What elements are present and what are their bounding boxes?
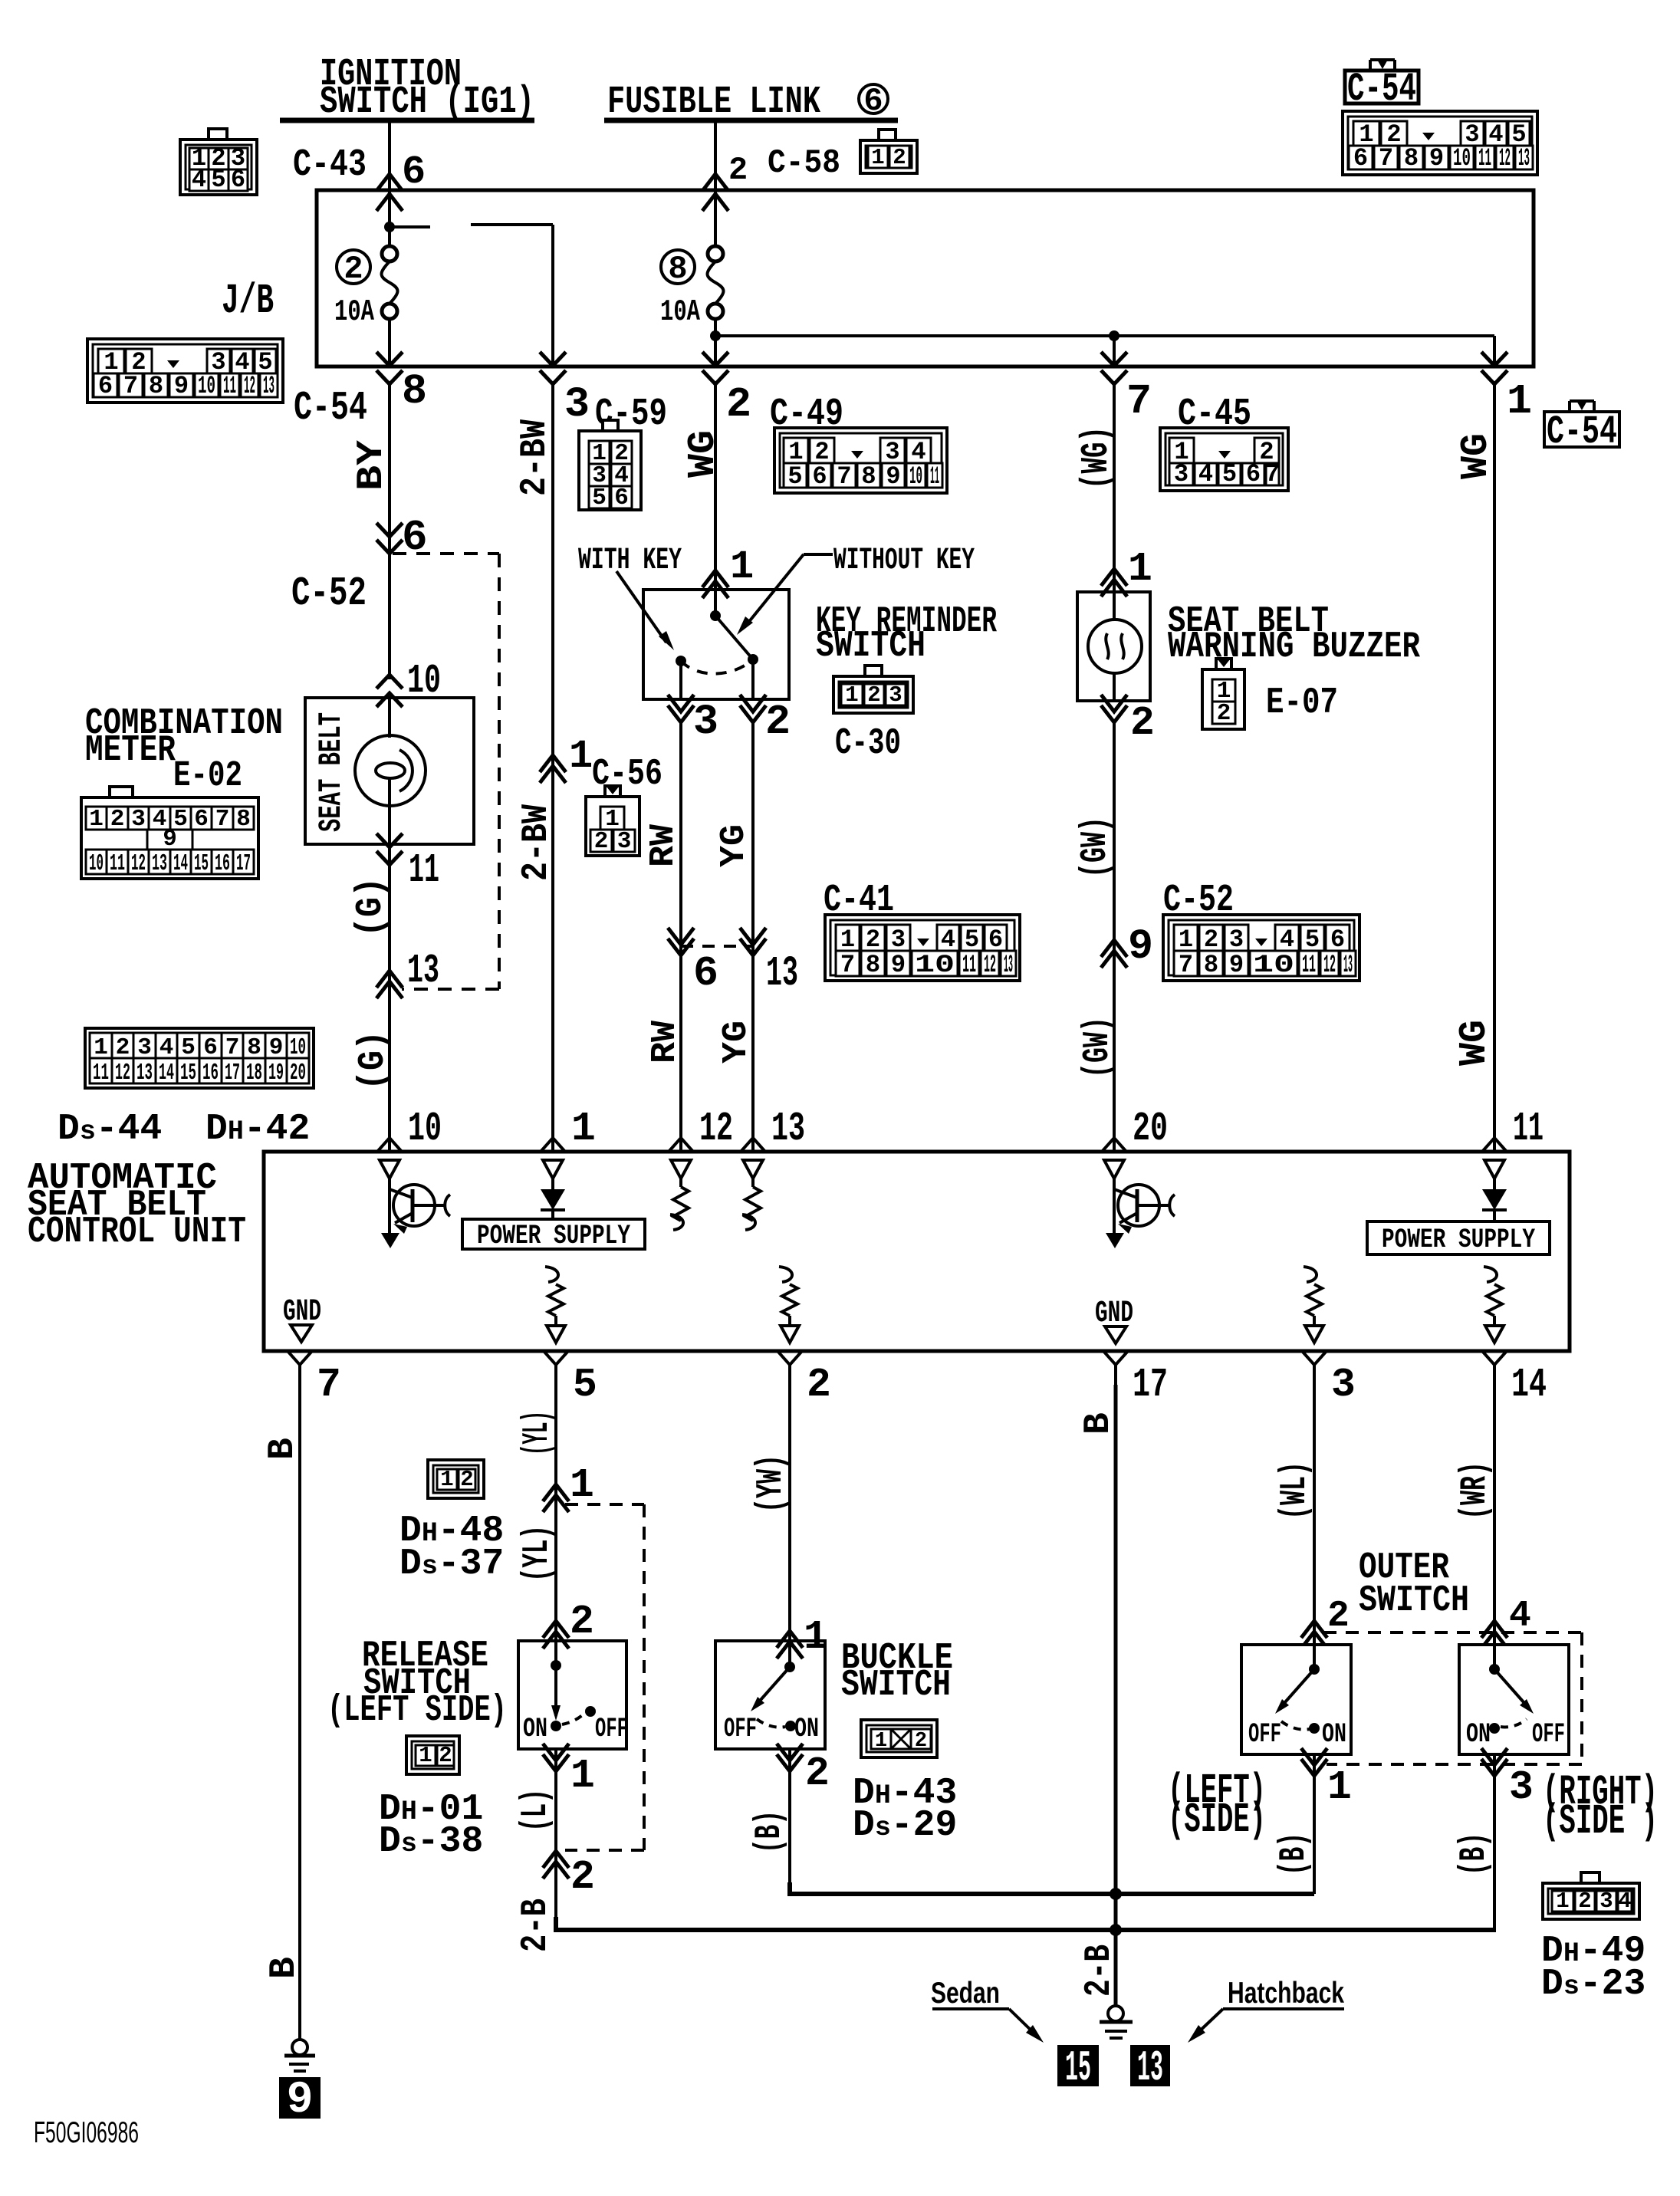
connector C-56 icon [586, 797, 639, 856]
connector arrows C-58 pin 2 [702, 174, 728, 191]
svg-text:(GW): (GW) [1077, 1017, 1119, 1078]
connector C-54 boxed label top right [1345, 58, 1419, 112]
svg-text:2: 2 [1217, 700, 1231, 727]
dashed connector link RW-YG [681, 945, 753, 948]
svg-text:WARNING BUZZER: WARNING BUZZER [1168, 626, 1420, 668]
junction dot below fuse 8 [710, 330, 721, 341]
svg-text:13: 13 [1137, 2043, 1163, 2092]
svg-text:FUSIBLE LINK: FUSIBLE LINK [607, 81, 820, 124]
svg-text:17: 17 [225, 1060, 240, 1086]
left outer switch box [1241, 1645, 1351, 1754]
svg-text:4: 4 [1509, 1596, 1531, 1637]
connector C-56 pin 1 arrows [540, 755, 566, 772]
control unit bottom pin 17 fork [1103, 1351, 1128, 1365]
svg-text:11: 11 [962, 951, 976, 979]
connector E-07 icon [1202, 669, 1244, 729]
svg-text:2: 2 [893, 145, 906, 170]
svg-text:Ds-23: Ds-23 [1541, 1964, 1645, 2005]
svg-text:7: 7 [123, 372, 138, 400]
svg-text:19: 19 [268, 1060, 284, 1086]
pullup resistor R1 [670, 1179, 689, 1230]
svg-text:(YW): (YW) [751, 1455, 792, 1513]
right outer switch pin 4 arrows [1481, 1621, 1507, 1638]
left outer switch pin 2 arrows [1301, 1621, 1327, 1638]
svg-text:8: 8 [149, 372, 163, 400]
svg-text:METER: METER [85, 730, 176, 771]
body ground symbol [284, 2040, 315, 2071]
svg-text:WITH KEY: WITH KEY [578, 544, 682, 578]
svg-text:17: 17 [236, 850, 251, 877]
svg-text:1: 1 [1327, 1764, 1352, 1810]
label COMBINATION METER E-02 [85, 703, 283, 797]
svg-text:8: 8 [1204, 951, 1218, 979]
svg-text:(G): (G) [353, 1031, 394, 1090]
svg-text:10A: 10A [660, 295, 700, 329]
svg-text:E-07: E-07 [1266, 682, 1338, 724]
svg-text:C-49: C-49 [770, 393, 843, 436]
J/B pin 3 arrows (2-BW wire) [540, 352, 566, 366]
leader WITHOUT KEY [804, 553, 833, 556]
svg-text:1: 1 [840, 925, 855, 954]
connector pin 13 arrows (dashed box exit) [376, 971, 403, 988]
svg-text:15: 15 [1065, 2043, 1091, 2092]
svg-text:5: 5 [787, 462, 802, 491]
wire drop to J/B pin 1 [1493, 336, 1496, 367]
svg-text:2-B: 2-B [515, 1898, 557, 1952]
svg-text:6: 6 [98, 372, 113, 400]
svg-text:2: 2 [110, 806, 125, 833]
svg-text:1: 1 [569, 734, 593, 779]
junction dot bus B [1110, 1924, 1122, 1936]
svg-text:2: 2 [594, 828, 609, 855]
connector C-54 icon (13 pin, top right) [1343, 111, 1537, 175]
svg-text:11: 11 [1478, 144, 1491, 173]
svg-text:10: 10 [198, 372, 215, 400]
svg-text:15: 15 [180, 1060, 196, 1086]
fuse 2 (10A) [382, 246, 397, 261]
wire YG (key reminder pin 2 to control unit pin 13) [751, 722, 755, 1152]
connector Dh-49 icon (4 pin) [1543, 1883, 1639, 1919]
svg-text:9: 9 [287, 2076, 314, 2125]
svg-text:10A: 10A [334, 295, 374, 329]
svg-text:13: 13 [1004, 951, 1013, 979]
ground reference box 15 [1058, 2043, 1098, 2092]
wire B (pin 7 to body ground 9) [298, 1385, 301, 2040]
transistor Q2 [1106, 1179, 1175, 1248]
svg-text:2: 2 [726, 380, 751, 429]
svg-text:6: 6 [988, 925, 1003, 954]
svg-text:16: 16 [202, 1060, 219, 1086]
svg-text:1: 1 [871, 145, 884, 170]
svg-text:Sedan: Sedan [931, 1977, 1000, 2010]
ground reference box 9 [280, 2076, 320, 2125]
svg-text:(WL): (WL) [1274, 1461, 1316, 1520]
dashed connector box Dh-48 span [565, 1503, 644, 1506]
svg-text:8: 8 [861, 462, 876, 491]
left outer switch contacts [1275, 1645, 1320, 1734]
junction dot at x=1453 [1109, 330, 1119, 341]
svg-text:6: 6 [1353, 144, 1368, 173]
svg-text:2: 2 [1578, 1889, 1591, 1914]
buzzer pin 2 arrows [1101, 695, 1127, 712]
svg-text:12: 12 [1323, 951, 1336, 979]
svg-text:13: 13 [407, 948, 439, 994]
svg-text:9: 9 [1128, 922, 1153, 971]
svg-text:C-56: C-56 [592, 754, 662, 795]
svg-text:1: 1 [730, 544, 754, 590]
svg-text:BY: BY [351, 440, 393, 491]
svg-text:2: 2 [460, 1467, 473, 1492]
wire IG1 from header to J/B (pin 6 C-43) [388, 120, 391, 192]
wire 2-BW (J/B pin 3 to control unit pin 1) [551, 383, 554, 1152]
svg-text:13: 13 [136, 1060, 153, 1086]
control unit bottom pin 2 fork [778, 1351, 802, 1365]
svg-text:1: 1 [1507, 377, 1532, 426]
svg-text:13: 13 [771, 1106, 805, 1152]
svg-text:7: 7 [1379, 144, 1393, 173]
connector Dh-48 icon [428, 1460, 484, 1498]
svg-text:13: 13 [263, 372, 275, 400]
svg-text:1: 1 [845, 682, 858, 708]
svg-text:2: 2 [765, 698, 791, 746]
svg-text:SWITCH: SWITCH [816, 626, 925, 667]
svg-text:13: 13 [1343, 951, 1353, 979]
junction dot on IG1 wire [384, 222, 395, 232]
svg-text:4: 4 [1618, 1889, 1631, 1914]
right outer switch pin 3 arrows [1481, 1748, 1507, 1765]
svg-text:POWER SUPPLY: POWER SUPPLY [477, 1221, 630, 1251]
svg-text:(L): (L) [515, 1789, 557, 1832]
wire (B) below buckle switch [788, 1749, 791, 1894]
bus wire B lower (release to right outer switch) [556, 1917, 1496, 1930]
svg-text:POWER SUPPLY: POWER SUPPLY [1382, 1225, 1535, 1255]
svg-text:2-BW: 2-BW [516, 804, 557, 881]
svg-text:1: 1 [570, 1753, 595, 1799]
svg-text:OFF: OFF [595, 1714, 628, 1744]
svg-text:3: 3 [889, 682, 902, 708]
svg-text:1: 1 [1556, 1889, 1569, 1914]
svg-text:11: 11 [223, 372, 236, 400]
svg-text:7: 7 [1126, 377, 1152, 426]
key reminder pin 2 arrows [740, 695, 766, 712]
svg-text:6: 6 [194, 806, 209, 833]
circled 2 [337, 250, 370, 284]
svg-text:F50GI06986: F50GI06986 [34, 2116, 139, 2149]
svg-text:SEAT BELT: SEAT BELT [313, 712, 350, 832]
svg-text:ON: ON [794, 1714, 819, 1744]
J/B pin 8 arrows (BY wire) [376, 352, 403, 366]
fuse 8 (10A) [708, 246, 723, 261]
svg-text:4: 4 [941, 925, 955, 954]
svg-text:2: 2 [915, 1730, 927, 1753]
svg-text:7: 7 [837, 462, 851, 491]
signal triangle pin 20 [1104, 1160, 1124, 1179]
dashed connector box C-52 span [393, 552, 499, 555]
svg-text:10: 10 [1453, 144, 1471, 173]
wire IG1 inside J/B to fuse 2 [388, 192, 391, 246]
svg-text:DH-42: DH-42 [205, 1109, 310, 1150]
svg-text:9: 9 [891, 951, 906, 979]
chassis ground symbol [1100, 2006, 1133, 2038]
svg-text:13: 13 [152, 850, 167, 877]
wire BY (J/B pin 8 to combination meter) [388, 383, 391, 679]
svg-text:3: 3 [1174, 460, 1188, 488]
svg-text:C-45: C-45 [1178, 393, 1251, 436]
label AUTOMATIC SEAT BELT CONTROL UNIT [28, 1158, 246, 1253]
diode D2 power supply [1482, 1179, 1507, 1221]
svg-text:5: 5 [965, 925, 979, 954]
svg-text:(YL): (YL) [517, 1525, 558, 1582]
wire (WR) pin 14 to right outer switch [1493, 1385, 1496, 1645]
svg-text:4: 4 [1198, 460, 1213, 488]
bus wire ground A (buckle to left outer switch) [790, 1882, 1314, 1894]
label (LEFT) (SIDE) [1168, 1767, 1266, 1844]
connector C-58 icon [860, 140, 917, 173]
wire drop to J/B pin 7 [1113, 336, 1116, 367]
svg-text:2: 2 [344, 251, 363, 288]
connector C-52 pin 9 arrows [1101, 940, 1127, 957]
key reminder switch contacts [676, 590, 758, 699]
key reminder switch box [643, 590, 789, 699]
svg-text:C-52: C-52 [291, 570, 367, 616]
svg-text:10: 10 [1253, 951, 1294, 979]
svg-text:1: 1 [571, 1106, 596, 1152]
svg-text:SWITCH: SWITCH [1359, 1580, 1469, 1622]
wire (WG) (J/B pin 7 to buzzer) [1113, 383, 1116, 592]
svg-text:6: 6 [231, 166, 245, 194]
connector pin 2 arrows (Dh-48 box exit) [543, 1851, 569, 1868]
svg-text:20: 20 [290, 1060, 306, 1086]
svg-text:7: 7 [840, 951, 855, 979]
svg-text:14: 14 [1511, 1362, 1547, 1408]
svg-text:11: 11 [1513, 1106, 1544, 1152]
gnd triangle left [291, 1325, 312, 1342]
signal triangle pin 11 [1484, 1160, 1504, 1179]
wire (G) below meter [388, 844, 391, 1152]
wire fusible link to J/B (pin 2 C-58) [714, 120, 717, 192]
svg-text:10: 10 [408, 1106, 442, 1152]
leader WITH KEY [616, 571, 666, 643]
wire (GW) (buzzer to control unit pin 20) [1113, 722, 1116, 1152]
release switch pin 2 arrows [543, 1621, 569, 1638]
svg-text:ON: ON [1466, 1719, 1491, 1750]
connector Ds-44/Dh-42 icon (20 pin) [85, 1028, 314, 1088]
connector C-30 icon [833, 676, 913, 713]
connector arrows C-43 pin 6 [376, 174, 403, 191]
label RELEASE SWITCH (LEFT SIDE) [327, 1635, 507, 1731]
svg-text:8: 8 [402, 367, 427, 416]
combination meter pin 10 arrows [376, 675, 403, 689]
control unit top pin 1 fork [541, 1138, 565, 1152]
svg-text:11: 11 [930, 462, 939, 491]
right outer switch box [1459, 1645, 1569, 1754]
control unit top pin 10 fork [377, 1138, 402, 1152]
svg-text:WG: WG [1453, 1020, 1497, 1066]
svg-text:10: 10 [909, 462, 922, 491]
svg-text:6: 6 [693, 949, 718, 998]
node IGNITION SWITCH (IG1) header [280, 53, 534, 124]
svg-text:C-54: C-54 [1547, 409, 1617, 455]
svg-text:15: 15 [194, 850, 209, 877]
wire WG (J/B pin 2 to key reminder switch) [714, 383, 717, 590]
release switch contacts [551, 1641, 596, 1731]
svg-text:1: 1 [570, 1462, 594, 1508]
svg-text:11: 11 [93, 1060, 109, 1086]
svg-text:5: 5 [592, 485, 607, 511]
svg-text:16: 16 [215, 850, 230, 877]
svg-text:9: 9 [174, 372, 189, 400]
wire (L) below release switch [554, 1749, 557, 1930]
svg-text:2: 2 [807, 1362, 831, 1408]
svg-text:9: 9 [886, 462, 900, 491]
svg-text:17: 17 [1133, 1362, 1168, 1408]
svg-text:7: 7 [317, 1362, 341, 1408]
connector C-59 icon [579, 431, 641, 510]
svg-text:6: 6 [614, 485, 629, 511]
connector C-54 boxed label right edge [1544, 399, 1619, 455]
output resistor at x=1949 [1484, 1267, 1504, 1343]
svg-text:3: 3 [1331, 1362, 1356, 1408]
label SEAT BELT WARNING BUZZER [1168, 601, 1420, 668]
dashed connector box outer switches [1323, 1632, 1582, 1764]
svg-text:OFF: OFF [1532, 1719, 1565, 1750]
wire (B) below right outer switch [1493, 1754, 1496, 1930]
wire (WL) pin 3 to left outer switch [1313, 1385, 1316, 1645]
svg-text:2-B: 2-B [1079, 1945, 1120, 1997]
svg-text:3: 3 [1599, 1889, 1613, 1914]
right outer switch contacts [1489, 1645, 1534, 1734]
svg-text:SWITCH: SWITCH [841, 1665, 951, 1706]
svg-text:11: 11 [110, 850, 125, 877]
label (RIGHT) (SIDE) [1543, 1768, 1658, 1846]
connector C-54 icon (13 pin, J/B left) [87, 339, 283, 403]
J/B pin 7 arrows ((WG) wire) [1101, 352, 1127, 366]
release switch box (left side) [518, 1641, 626, 1749]
signal triangle pin 1 [543, 1160, 563, 1179]
output resistor at x=1030 [779, 1267, 799, 1343]
svg-text:E-02: E-02 [173, 756, 242, 797]
J/B pin 1 arrows (WG wire right) [1481, 352, 1507, 366]
svg-text:WITHOUT KEY: WITHOUT KEY [833, 544, 975, 578]
svg-text:Ds-38: Ds-38 [379, 1821, 483, 1862]
buckle switch box [715, 1641, 825, 1749]
svg-text:1: 1 [875, 1730, 887, 1753]
connector C-49 icon [774, 428, 947, 493]
svg-text:5: 5 [1305, 925, 1320, 954]
svg-text:C-54: C-54 [1347, 67, 1416, 112]
svg-text:7: 7 [215, 806, 230, 833]
connector pin 6 arrows on RW [668, 928, 694, 945]
transistor Q1 [381, 1179, 450, 1248]
control unit top pin 13 fork [741, 1138, 765, 1152]
connector Dh-48 pin 1 arrows [543, 1484, 569, 1501]
svg-text:(B): (B) [749, 1810, 791, 1853]
Sedan leader line [932, 2009, 1044, 2043]
connector C-43 icon [180, 140, 257, 195]
svg-text:6: 6 [402, 150, 426, 195]
wire branch from IG1 junction to 2-BW drop [390, 225, 430, 228]
svg-text:11: 11 [1302, 951, 1316, 979]
buckle switch pin 1 arrows [777, 1631, 803, 1648]
svg-text:1: 1 [419, 1743, 432, 1768]
svg-text:7: 7 [1179, 951, 1193, 979]
svg-text:WG: WG [682, 430, 725, 478]
svg-text:8: 8 [668, 251, 687, 288]
control unit bottom pin 14 fork [1482, 1351, 1507, 1365]
svg-text:YG: YG [715, 824, 754, 867]
svg-text:(SIDE): (SIDE) [1168, 1796, 1266, 1844]
svg-text:7: 7 [1265, 460, 1280, 488]
svg-text:B: B [262, 1438, 304, 1460]
pullup resistor R2 [742, 1179, 761, 1230]
svg-text:Ds-37: Ds-37 [399, 1543, 504, 1585]
svg-text:(WG): (WG) [1075, 426, 1119, 489]
svg-text:RW: RW [644, 824, 683, 867]
wire below fuse 2 to J/B bottom [388, 319, 391, 367]
svg-text:CONTROL UNIT: CONTROL UNIT [28, 1211, 246, 1253]
junction block J/B box [317, 190, 1534, 367]
buzzer symbol [1088, 592, 1142, 701]
buzzer pin 1 arrows [1101, 569, 1127, 586]
svg-text:14: 14 [159, 1060, 174, 1086]
svg-text:12: 12 [1499, 144, 1511, 173]
key reminder pin 3 arrows [668, 695, 694, 712]
svg-text:3: 3 [564, 380, 590, 429]
svg-text:4: 4 [1280, 925, 1294, 954]
svg-text:5: 5 [573, 1362, 597, 1408]
combination meter pin 11 arrows [376, 833, 403, 847]
bus wire inside J/B y=438 [715, 334, 1494, 337]
svg-text:18: 18 [246, 1060, 262, 1086]
svg-text:SWITCH (IG1): SWITCH (IG1) [320, 81, 534, 124]
key reminder switch pin 1 arrows [702, 570, 728, 587]
svg-text:(LEFT SIDE): (LEFT SIDE) [327, 1690, 507, 1731]
svg-text:(G): (G) [350, 877, 392, 937]
svg-text:9: 9 [1429, 144, 1444, 173]
svg-text:(YL): (YL) [517, 1411, 558, 1455]
svg-text:10: 10 [89, 850, 104, 877]
svg-text:YG: YG [717, 1021, 756, 1063]
svg-text:2-BW: 2-BW [515, 419, 556, 496]
svg-text:3: 3 [131, 806, 146, 833]
wire (YW) pin 2 to buckle switch [788, 1385, 791, 1641]
svg-text:8: 8 [866, 951, 880, 979]
release switch pin 1 arrows [543, 1744, 569, 1760]
signal triangle pin 12 [671, 1160, 691, 1179]
svg-text:C-30: C-30 [835, 723, 901, 764]
svg-text:5: 5 [211, 166, 225, 194]
combination meter box [305, 698, 474, 844]
svg-text:5: 5 [1222, 460, 1237, 488]
svg-text:2: 2 [1204, 925, 1218, 954]
connector C-45 icon [1160, 428, 1288, 491]
svg-text:Hatchback: Hatchback [1228, 1977, 1344, 2010]
buckle switch contacts [751, 1641, 796, 1731]
svg-text:6: 6 [1330, 925, 1345, 954]
wire inside J/B to fuse 8 [714, 192, 717, 246]
svg-text:J/B: J/B [222, 277, 274, 325]
svg-text:WG: WG [1455, 433, 1498, 479]
svg-text:20: 20 [1133, 1106, 1168, 1152]
svg-text:1: 1 [440, 1467, 453, 1492]
svg-text:2: 2 [1130, 700, 1155, 746]
svg-text:4: 4 [192, 166, 206, 194]
svg-text:6: 6 [812, 462, 827, 491]
svg-text:1: 1 [1128, 546, 1152, 592]
svg-text:2: 2 [439, 1743, 452, 1768]
control unit top pin 20 fork [1102, 1138, 1126, 1152]
svg-text:(GW): (GW) [1075, 817, 1116, 878]
